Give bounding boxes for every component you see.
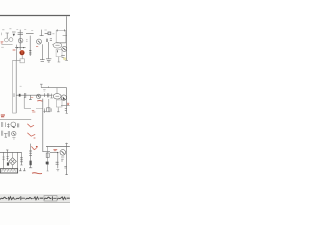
caption text squiggles [1, 197, 70, 200]
wire right vertical upper [66, 16, 68, 60]
shield box tall rectangle [13, 60, 21, 113]
resistor R4 blob [48, 32, 51, 35]
wire right vertical mid [66, 88, 68, 114]
capacitor C10 [18, 123, 19, 127]
wire center vertical [19, 30, 21, 50]
capacitor C1 [18, 33, 23, 35]
resistor Rm tick [50, 94, 52, 98]
paper background [0, 0, 70, 225]
resistor R2 [29, 50, 31, 54]
bridge rectifier BR1 [9, 152, 16, 168]
ground tick pair [45, 108, 52, 111]
label red voltage left [1, 115, 5, 117]
resistor R11 [20, 152, 23, 165]
ground T3 [56, 169, 59, 171]
wire right branch [61, 105, 70, 107]
transistor Q6 [36, 94, 40, 98]
ground [46, 59, 51, 62]
resistor R1 [6, 33, 9, 38]
caption strip background [0, 194, 70, 203]
wire bottomright rail2 [50, 152, 58, 154]
transistor Q9 [11, 122, 16, 128]
wire branch vertical left-mid [30, 144, 32, 168]
transistor Q4 [37, 39, 42, 44]
label red underline [37, 100, 42, 103]
wire bottomright rail [46, 145, 70, 147]
wire tick on right rail [48, 86, 50, 87]
ground ticks [12, 138, 15, 139]
label red squiggle [31, 146, 36, 149]
ground T4 [65, 174, 68, 176]
capacitor C15 bars [2, 131, 3, 136]
wire stub mid vertical [40, 30, 44, 36]
capacitor C7 [45, 93, 49, 97]
capacitor C2 box [20, 59, 24, 63]
ground T2 [23, 168, 26, 171]
diode blob D2 [7, 162, 9, 165]
resistor R13 [56, 162, 59, 164]
resistor R6 [29, 95, 32, 99]
label value marks [61, 55, 65, 57]
label faint refs top [1, 29, 54, 47]
wire left rail [0, 119, 31, 121]
label red note1 [1, 42, 4, 43]
wire collector vertical [42, 44, 44, 60]
label red note br [53, 149, 57, 150]
wire tick [66, 112, 68, 114]
terminal strip box [0, 169, 17, 173]
node yellow highlight [63, 57, 66, 60]
capacitor C14 bars [2, 122, 3, 127]
IC U1 box [56, 29, 66, 42]
wire junction stub [6, 150, 8, 153]
transistor Q1 [5, 38, 9, 42]
diode blob D3 [30, 161, 32, 166]
wire below stamp [21, 55, 23, 58]
label red wavy underline [32, 172, 42, 175]
resistor R8 [4, 133, 8, 137]
transistor Q8 [61, 95, 66, 100]
resistor R10 [7, 152, 9, 161]
ground stub2 [57, 107, 60, 111]
resistor R5 [50, 39, 52, 41]
transistor Q3 [18, 38, 23, 43]
wire bias horizontal [26, 33, 34, 35]
wire vertical into shield box [15, 45, 17, 61]
resistor R9 [8, 131, 9, 137]
wire right rail [41, 87, 66, 89]
label plus mark [43, 110, 46, 113]
caption word frame [44, 196, 57, 201]
caption baseline [0, 202, 70, 204]
transistor Q10 [12, 131, 16, 135]
resistor R14 tick [4, 122, 6, 127]
label faint ch text [43, 89, 45, 91]
capacitor C11 [3, 152, 5, 168]
wire bias mid [45, 33, 51, 35]
node red stamp dot [19, 50, 24, 55]
wire tick above rail [65, 142, 68, 144]
wire divider vertical [29, 36, 31, 56]
resistor R12 [29, 151, 32, 155]
capacitor C8 box [56, 100, 62, 107]
capacitor C13 [64, 166, 66, 168]
diode blob D4 [46, 162, 49, 165]
transducer oval [52, 43, 62, 49]
node junction dot [57, 152, 58, 153]
capacitor C6 [25, 93, 26, 98]
wire branch vertical [24, 97, 31, 108]
wire faint branch [36, 108, 43, 110]
label value marks3 [61, 157, 64, 161]
wire top horizontal rule [0, 15, 70, 17]
label red marks right [32, 110, 36, 112]
wire right side of bridge [17, 152, 19, 168]
wire right rail stub [40, 84, 43, 87]
wire top right corner [63, 35, 67, 37]
capacitor C9 plus [7, 123, 10, 128]
wire bottomleft rail [0, 151, 22, 153]
resistor R3 [40, 60, 45, 62]
transistor Q2 [9, 38, 13, 42]
label red dot [36, 146, 38, 148]
label red note2 [13, 49, 16, 51]
label red speck [34, 137, 36, 139]
transistor Q5 [62, 46, 67, 51]
wire emitter rail [15, 47, 26, 49]
label red check2 [27, 133, 35, 136]
wire branch vertical br [57, 153, 59, 169]
wire mid vertical [48, 42, 50, 58]
wire left bias [1, 44, 12, 46]
diode D1 [12, 32, 16, 36]
node junction dots [17, 47, 18, 48]
transistor Q11 [60, 150, 66, 156]
ground stub [58, 57, 61, 62]
wire right vertical bottom [66, 143, 68, 175]
wire comp branch [47, 146, 49, 171]
capacitor C12 [46, 153, 49, 157]
wire branch vertical2 [48, 99, 50, 112]
capacitor C3 [46, 39, 47, 42]
ground T1 [19, 168, 22, 171]
wire tick right [65, 59, 68, 61]
label faint ref mid [20, 85, 22, 87]
node junction blob [19, 94, 21, 97]
capacitor C5 tick [13, 93, 15, 97]
resistor R7 [47, 108, 50, 112]
label red right [67, 103, 69, 104]
capacitor C4 box [56, 49, 62, 56]
wire tick bottom [29, 167, 32, 169]
label red dash mid [31, 96, 33, 98]
label red note3 [36, 45, 38, 47]
label value marks2 [65, 109, 67, 111]
transistor Q7 [53, 88, 62, 99]
label red check1 [27, 124, 34, 127]
wire mid long vertical [43, 99, 50, 152]
wire mid cluster rail [16, 94, 52, 96]
